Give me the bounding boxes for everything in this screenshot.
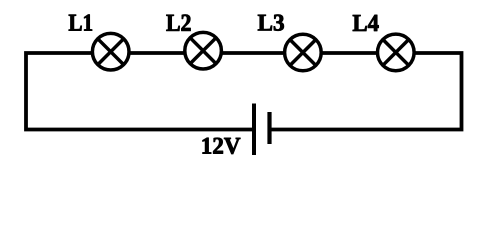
lamp L2 xyxy=(185,32,222,69)
battery positive plate (long) xyxy=(252,104,256,156)
label 12V xyxy=(203,138,241,154)
wire: left loop from lamp L1 left terminal around left side and bottom to battery positive plate xyxy=(26,53,253,130)
wire: right loop from lamp L4 right terminal around right side and bottom to battery negative plate xyxy=(272,53,462,130)
lamp L4 xyxy=(378,34,415,71)
label L3 xyxy=(258,15,284,31)
label L1 xyxy=(69,15,92,31)
label L4 xyxy=(353,15,379,31)
wire: between lamp L2 and lamp L3 xyxy=(223,51,284,55)
lamp L3 xyxy=(285,34,322,71)
wire: between lamp L3 and lamp L4 xyxy=(323,51,378,55)
label L2 xyxy=(166,15,190,31)
lamp L1 xyxy=(92,33,129,70)
battery negative plate (short) xyxy=(267,112,271,144)
wire: between lamp L1 and lamp L2 xyxy=(130,51,184,55)
